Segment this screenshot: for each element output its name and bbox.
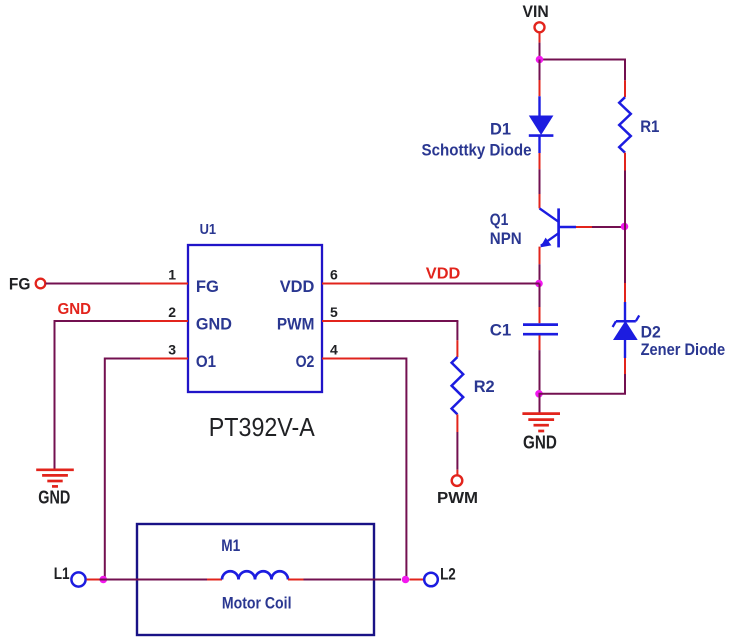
svg-text:D2: D2 [641,323,661,342]
svg-text:NPN: NPN [490,229,522,248]
svg-text:2: 2 [168,304,176,320]
svg-text:FG: FG [9,275,31,294]
svg-text:GND: GND [523,432,557,452]
svg-text:6: 6 [330,266,338,282]
svg-text:L2: L2 [440,564,456,583]
svg-text:GND: GND [38,487,70,507]
svg-text:PWM: PWM [437,490,478,507]
svg-text:R2: R2 [474,377,495,396]
svg-text:Q1: Q1 [490,210,509,229]
svg-text:O2: O2 [296,352,315,371]
svg-text:5: 5 [330,304,338,320]
svg-text:1: 1 [168,266,176,282]
svg-text:PWM: PWM [277,315,315,334]
svg-text:Motor Coil: Motor Coil [222,594,292,613]
svg-text:O1: O1 [196,352,216,371]
svg-text:3: 3 [168,341,176,357]
svg-text:C1: C1 [490,321,512,340]
svg-text:FG: FG [196,277,219,296]
svg-text:4: 4 [330,341,338,357]
svg-text:Schottky Diode: Schottky Diode [422,140,532,159]
svg-text:M1: M1 [221,536,240,555]
svg-text:VIN: VIN [523,2,549,21]
svg-text:U1: U1 [200,221,217,238]
svg-text:VDD: VDD [280,277,315,296]
svg-text:GND: GND [58,301,92,318]
svg-text:R1: R1 [640,117,659,136]
svg-text:Zener Diode: Zener Diode [641,340,726,359]
svg-text:PT392V-A: PT392V-A [209,412,316,442]
svg-text:GND: GND [196,315,232,334]
svg-text:D1: D1 [490,119,511,138]
svg-text:L1: L1 [54,564,70,583]
svg-text:VDD: VDD [426,266,461,283]
